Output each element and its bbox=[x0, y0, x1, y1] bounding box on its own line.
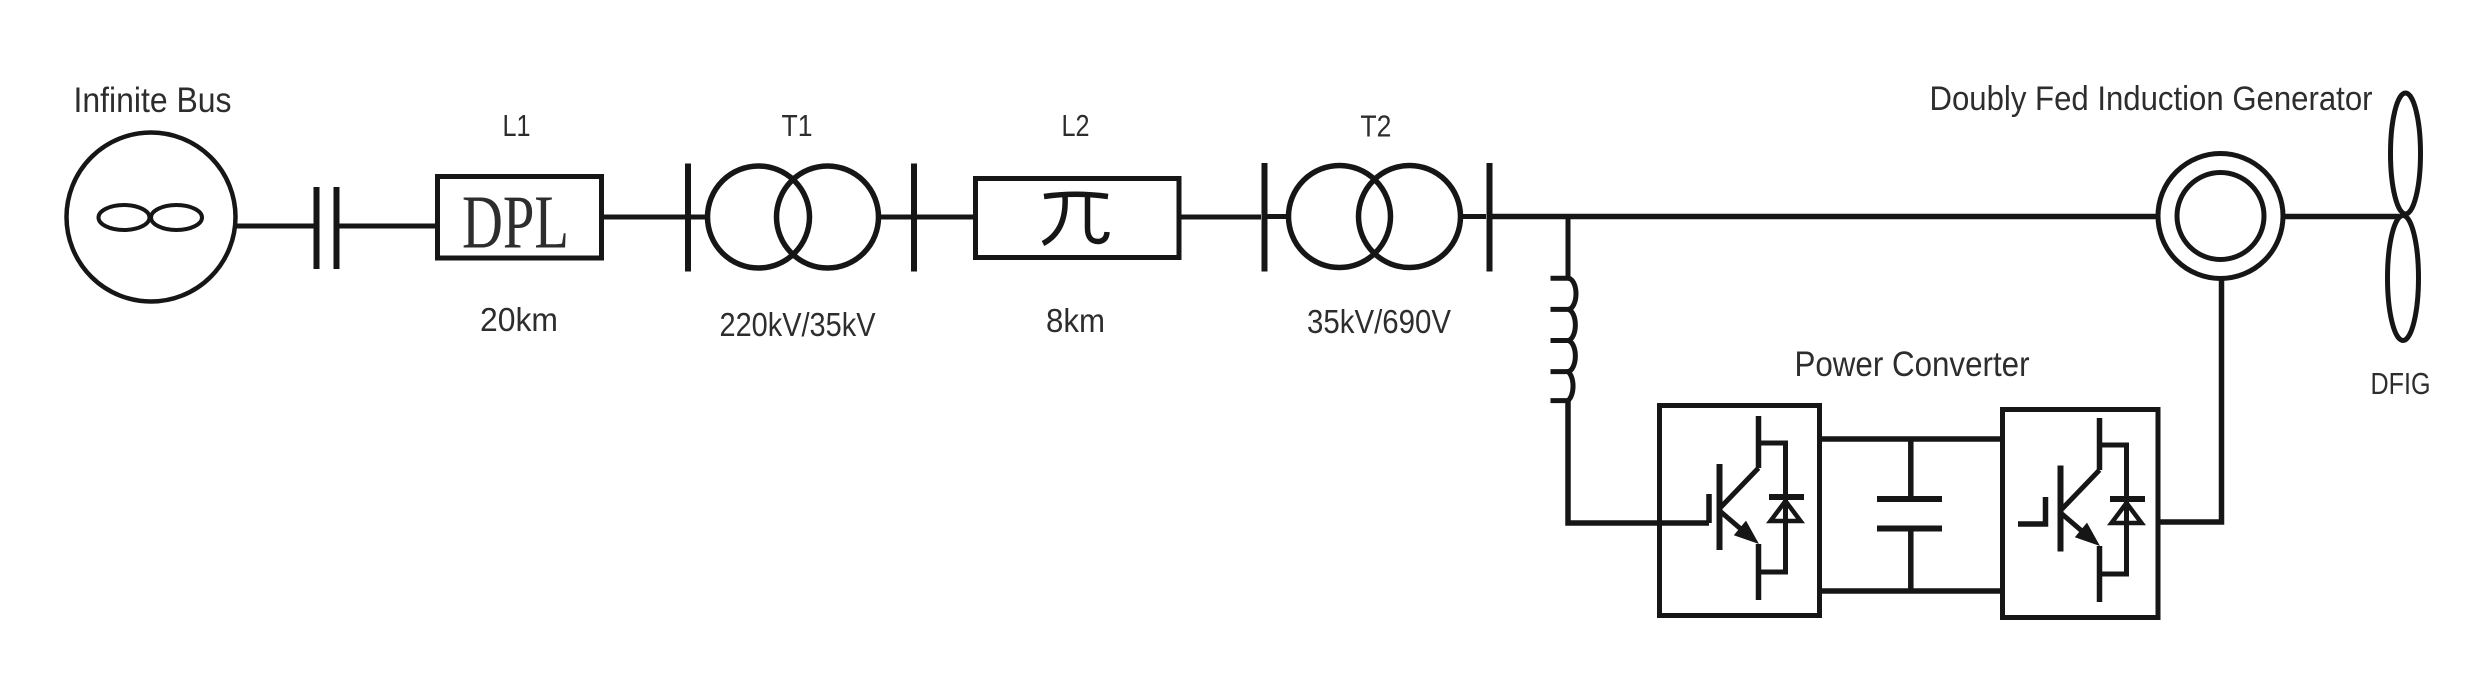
breaker bar 2 bbox=[911, 164, 917, 272]
svg-text:DFIG: DFIG bbox=[2371, 366, 2431, 401]
U2 IGBT gate lead bbox=[2018, 497, 2046, 524]
line L2 pi-section box bbox=[976, 179, 1180, 258]
wire L1 to breaker bar 1 bbox=[604, 215, 685, 220]
U2 IGBT collector lead bbox=[2097, 418, 2103, 470]
breaker bar 1 bbox=[685, 164, 691, 272]
wire bus to capacitor bbox=[233, 224, 314, 229]
rotor side converter box U2 bbox=[2003, 410, 2159, 618]
wire generator to turbine bbox=[2283, 214, 2399, 220]
DC link bottom wire bbox=[1820, 588, 2003, 594]
svg-text:8km: 8km bbox=[1046, 302, 1105, 339]
U1 IGBT body bar bbox=[1717, 464, 1723, 550]
C1 top plate bbox=[1877, 496, 1942, 502]
coil tick 1 bbox=[1551, 276, 1569, 281]
breaker bar 4 bbox=[1487, 163, 1493, 272]
coil tick 3 bbox=[1551, 338, 1569, 343]
transformer T1 secondary winding bbox=[777, 166, 879, 268]
pi symbol right leg bbox=[1088, 196, 1108, 242]
U1 diode branch lead bbox=[1759, 443, 1786, 572]
U1 IGBT emitter diagonal bbox=[1721, 512, 1742, 530]
svg-text:L1: L1 bbox=[503, 108, 531, 143]
transformer T2 primary winding bbox=[1289, 166, 1391, 268]
rotor side inductor coil bbox=[1568, 278, 1576, 400]
pi symbol top bar bbox=[1044, 194, 1108, 196]
U2 IGBT emitter diagonal bbox=[2062, 514, 2083, 532]
wire L2 to breaker bar 3 bbox=[1181, 215, 1261, 220]
wire T2 to breaker bar 4 bbox=[1461, 214, 1487, 219]
U1 IGBT emitter lead bbox=[1756, 544, 1762, 600]
U1 IGBT collector lead bbox=[1756, 416, 1762, 468]
svg-text:20km: 20km bbox=[480, 301, 558, 338]
turbine blade bottom bbox=[2388, 216, 2419, 341]
svg-text:T2: T2 bbox=[1360, 109, 1391, 144]
U1 IGBT gate lead bbox=[1706, 494, 1712, 523]
svg-text:L2: L2 bbox=[1062, 108, 1090, 143]
grid side converter box U1 bbox=[1660, 406, 1820, 616]
U2 diode triangle bbox=[2112, 503, 2142, 523]
U1 IGBT collector diagonal bbox=[1721, 468, 1759, 507]
U2 IGBT body bar bbox=[2058, 466, 2064, 552]
capacitor left plate bbox=[314, 187, 320, 269]
infinite bus source G1 bbox=[67, 133, 236, 302]
wire capacitor to line L1 box bbox=[339, 224, 436, 229]
wire bar1 to T1 bbox=[691, 215, 709, 220]
capacitor right plate bbox=[334, 187, 340, 269]
wire inductor to grid-side converter gate bbox=[1568, 401, 1709, 523]
svg-text:T1: T1 bbox=[782, 108, 813, 143]
wire T1 to breaker bar 2 bbox=[879, 215, 912, 220]
infinity symbol left lobe bbox=[99, 205, 150, 230]
DC link top wire bbox=[1820, 436, 2003, 442]
U1 diode triangle bbox=[1771, 501, 1801, 521]
U2 IGBT emitter lead bbox=[2097, 546, 2103, 602]
line L1 box (DPL) bbox=[438, 177, 602, 259]
wire U2 to rotor riser bbox=[2158, 279, 2222, 522]
U2 IGBT emitter arrow bbox=[2075, 523, 2100, 546]
svg-text:Infinite Bus: Infinite Bus bbox=[74, 81, 232, 120]
U1 diode cathode bar bbox=[1769, 494, 1804, 500]
main bus wire to generator bbox=[1492, 214, 2159, 220]
coil tick 4 bbox=[1551, 369, 1569, 374]
DC link capacitor C1 top lead bbox=[1908, 441, 1914, 497]
breaker bar 3 bbox=[1262, 163, 1268, 272]
U2 diode branch lead bbox=[2100, 445, 2127, 574]
C1 bottom plate bbox=[1877, 526, 1942, 532]
C1 bottom lead bbox=[1908, 531, 1914, 591]
svg-text:Power Converter: Power Converter bbox=[1795, 345, 2030, 384]
transformer T1 primary winding bbox=[708, 166, 810, 268]
turbine blade top bbox=[2391, 93, 2421, 214]
wire bar3 to T2 bbox=[1267, 214, 1290, 219]
infinity symbol right lobe bbox=[151, 205, 202, 230]
svg-text:220kV/35kV: 220kV/35kV bbox=[720, 306, 876, 343]
DFIG generator outer circle bbox=[2158, 154, 2283, 279]
U2 IGBT collector diagonal bbox=[2062, 470, 2100, 509]
svg-text:35kV/690V: 35kV/690V bbox=[1307, 303, 1451, 340]
wire bar2 to line L2 box bbox=[917, 215, 973, 220]
stator branch junction wire down bbox=[1566, 219, 1571, 279]
svg-text:DPL: DPL bbox=[462, 181, 569, 265]
coil tick 5 bbox=[1551, 398, 1569, 403]
coil tick 2 bbox=[1551, 307, 1569, 312]
U1 IGBT emitter arrow bbox=[1734, 521, 1759, 544]
DFIG generator inner circle bbox=[2177, 173, 2264, 260]
pi symbol left leg bbox=[1043, 196, 1065, 244]
transformer T2 secondary winding bbox=[1359, 166, 1461, 268]
U2 diode cathode bar bbox=[2110, 496, 2145, 502]
svg-text:Doubly Fed Induction Generator: Doubly Fed Induction Generator bbox=[1930, 80, 2373, 118]
